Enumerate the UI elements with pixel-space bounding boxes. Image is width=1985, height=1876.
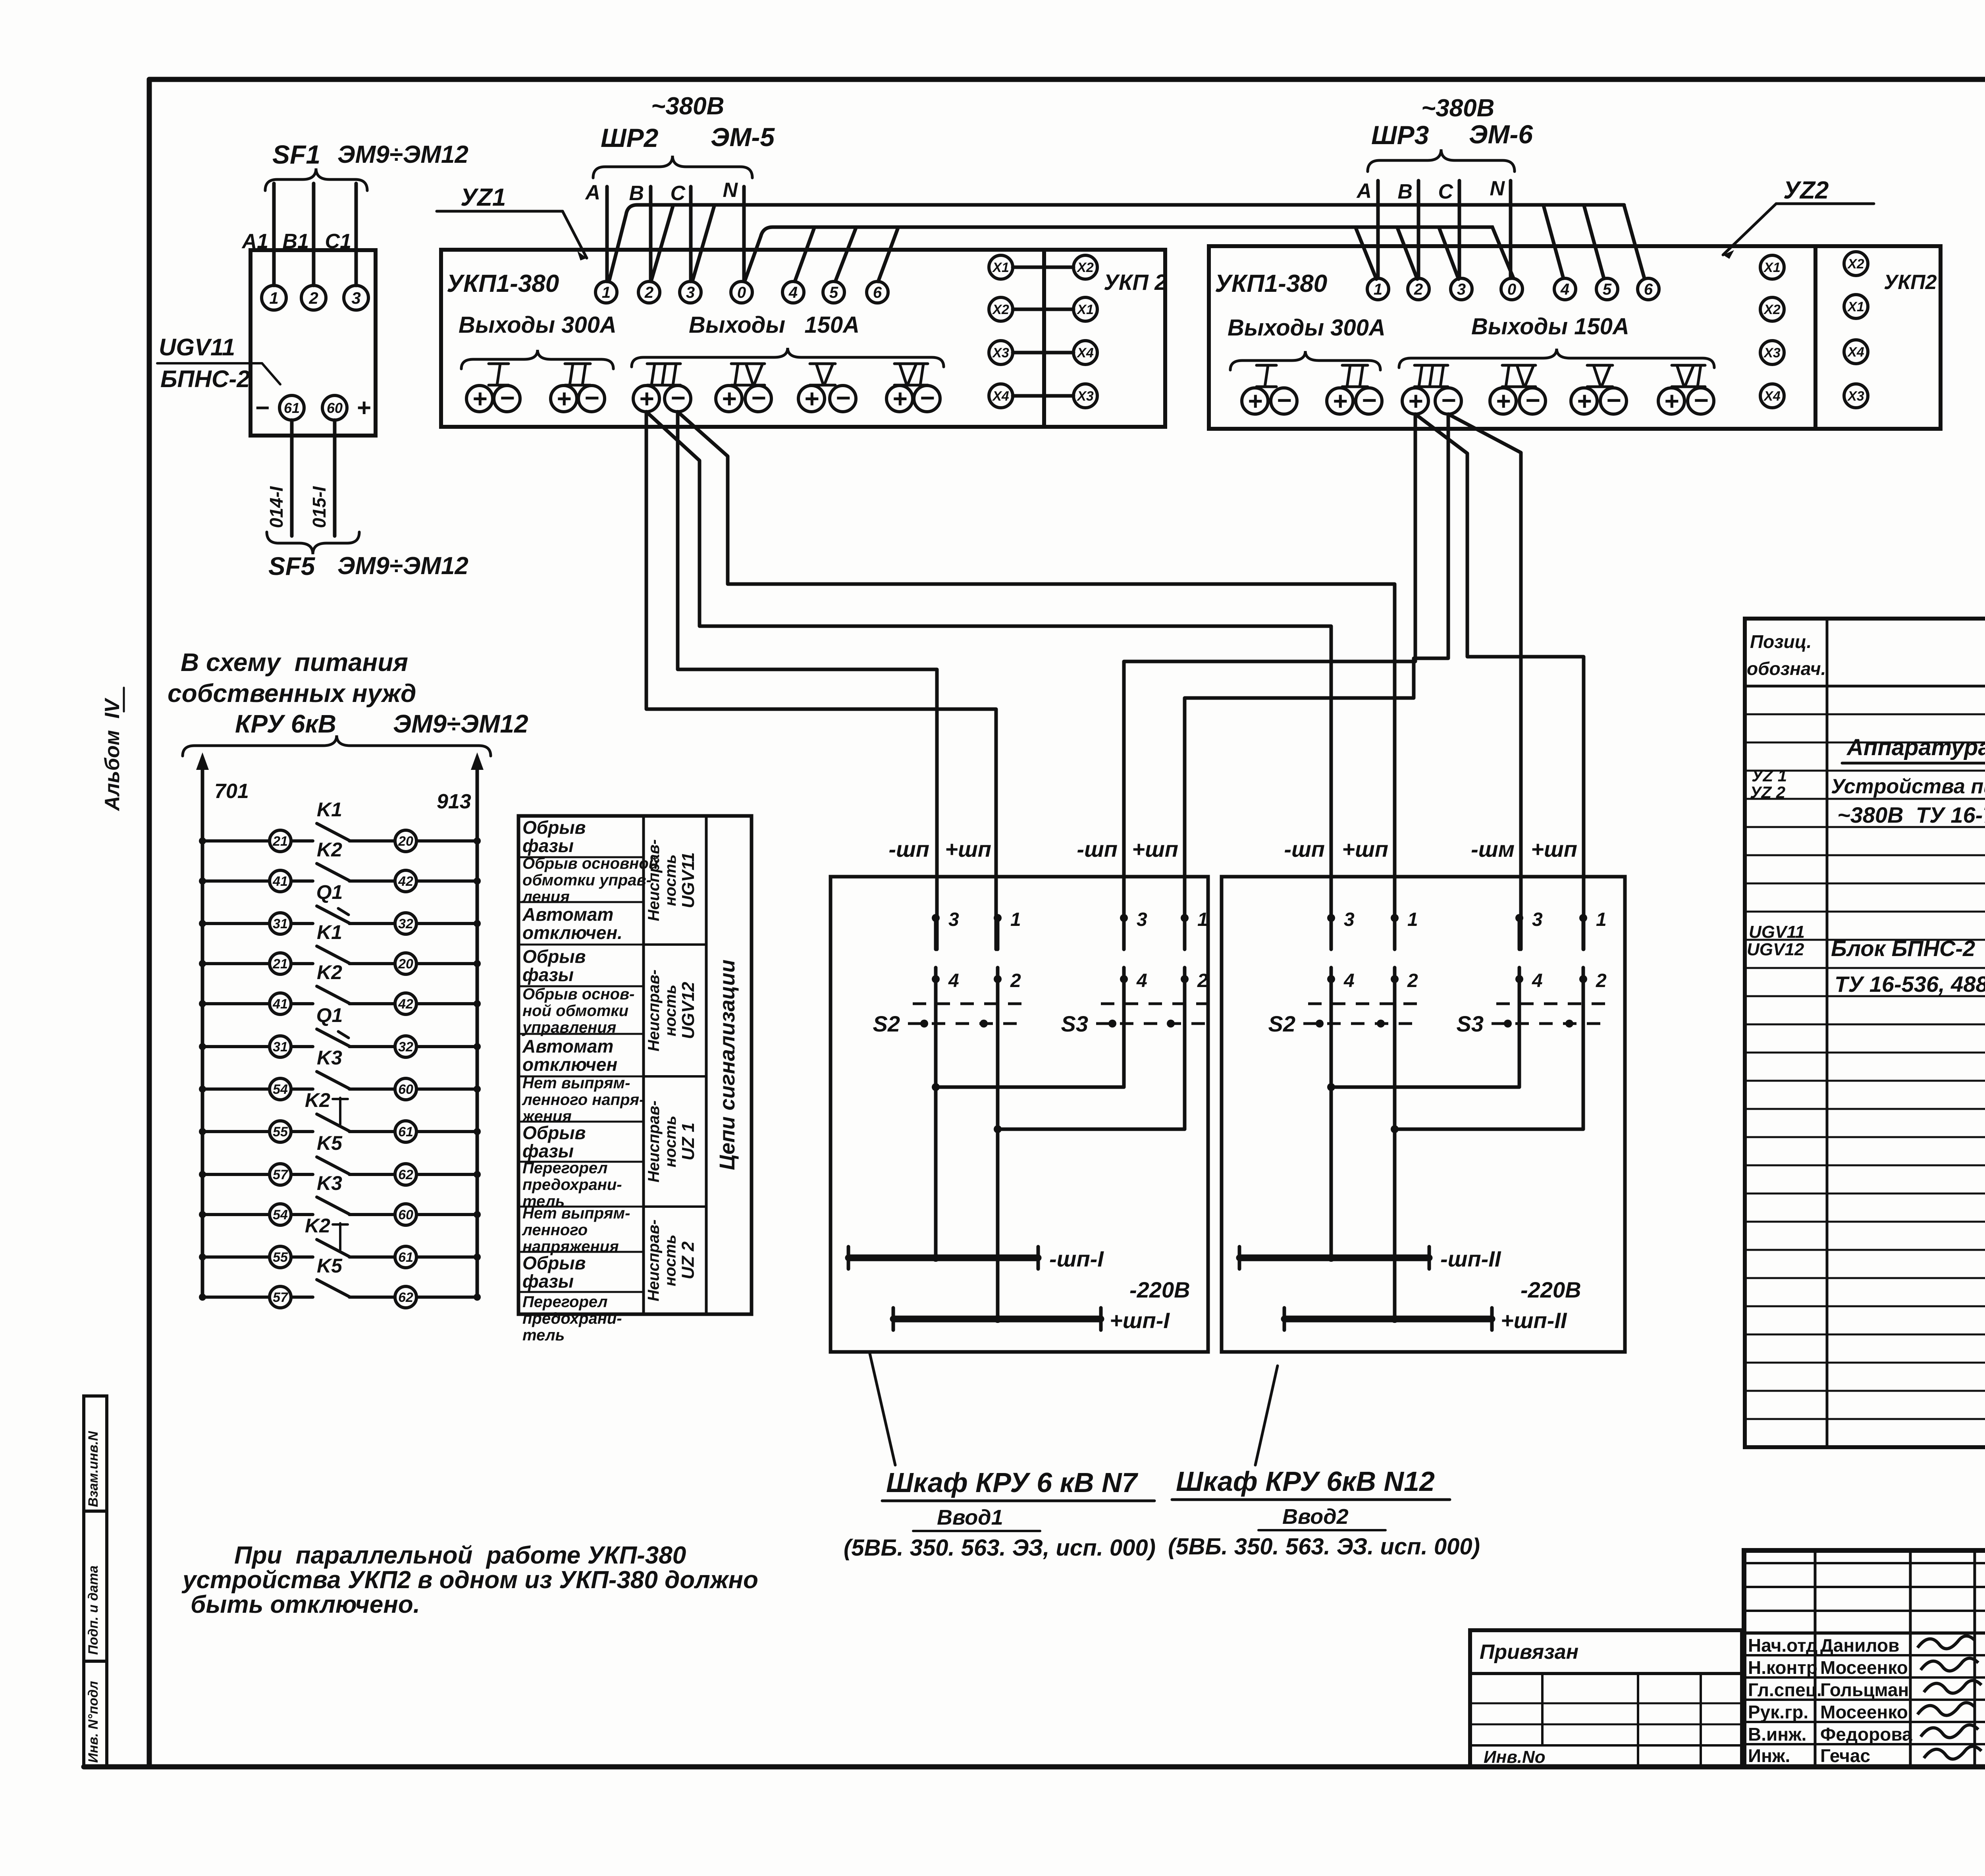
svg-text:-шм: -шм (1471, 837, 1515, 862)
svg-text:Выходы 150А: Выходы 150А (1471, 314, 1629, 339)
output 3 minus terminal (unit2) (1435, 386, 1461, 415)
album label (101, 688, 124, 812)
svg-text:ления: ления (522, 888, 570, 906)
output 4 plus terminal (unit2) (1490, 387, 1516, 415)
wire unit1 out III- to cabinet1 -bus (678, 412, 937, 949)
signal text row 6 (522, 1036, 617, 1075)
svg-text:57: 57 (273, 1167, 289, 1182)
ladder left rail 701 (196, 752, 249, 1298)
output 2 minus terminal (unit1) (578, 384, 605, 412)
svg-text:отключен: отключен (522, 1054, 617, 1075)
svg-text:2: 2 (308, 289, 318, 307)
svg-text:-шп-I: -шп-I (1049, 1246, 1104, 1271)
svg-text:60: 60 (398, 1082, 413, 1097)
outputs 300A label (unit2) (1228, 315, 1386, 341)
terminal 3 of UKP1 unit2 (1451, 278, 1472, 300)
UKP2 box (unit2) (1815, 246, 1941, 429)
svg-text:61: 61 (398, 1124, 413, 1139)
net label -шп (1284, 837, 1325, 862)
svg-text:2: 2 (1596, 970, 1607, 991)
contact K2 row 8 (55-61) (199, 1089, 481, 1142)
phase B wire (unit2) (1417, 181, 1420, 278)
bus tap to pin 4 (unit2) (1544, 206, 1563, 278)
contact K3 row 10 (54-60) (199, 1172, 481, 1225)
contact stud 1 II (1391, 909, 1418, 949)
output 4 plus terminal (unit1) (716, 384, 742, 413)
svg-text:УZ2: УZ2 (1783, 177, 1829, 204)
svg-text:Блок БПНС-2 ~415В 50Гц: Блок БПНС-2 ~415В 50Гц - 220В (1831, 936, 1985, 961)
net label -шм (1471, 837, 1515, 862)
wire unit2 out III- to cabinet1 (1185, 414, 1448, 949)
neutral N wire (unit2) (1509, 181, 1513, 278)
contact stud 3 II (1327, 909, 1355, 949)
svg-text:−: − (1441, 386, 1455, 415)
svg-text:обознач.: обознач. (1747, 658, 1826, 679)
svg-text:Перегорел: Перегорел (522, 1159, 608, 1177)
bracket SF1 (265, 168, 367, 191)
wire C1 (355, 183, 358, 285)
signal text row 9 (522, 1159, 622, 1210)
svg-text:(5ВБ. 350. 563. ЭЗ. исп. 000): (5ВБ. 350. 563. ЭЗ. исп. 000) (1168, 1534, 1480, 1560)
connector X column (unit2) (1760, 255, 1784, 408)
svg-text:K3: K3 (317, 1047, 342, 1069)
terminal 0 of UKP1 unit2 (1501, 278, 1522, 300)
phase A wire (unit1) (605, 187, 609, 281)
svg-text:УZ 2: УZ 2 (1750, 783, 1785, 802)
output 5 minus terminal (unit2) (1600, 386, 1627, 415)
svg-text:-шп: -шп (1077, 837, 1118, 862)
svg-text:4: 4 (788, 284, 798, 301)
svg-text:Ввод2: Ввод2 (1282, 1505, 1349, 1529)
contact stud 1 II (1579, 909, 1607, 949)
phase C wire (unit2) (1458, 181, 1461, 278)
svg-text:Х4: Х4 (1763, 389, 1781, 404)
link terminal4 wires II (1327, 979, 1519, 1091)
svg-text:1: 1 (1197, 909, 1208, 930)
bus tap to pin 1 (unit2) (1356, 228, 1376, 279)
svg-text:Нач.отд: Нач.отд (1748, 1635, 1817, 1656)
svg-text:62: 62 (398, 1290, 413, 1305)
svg-text:Перегорел: Перегорел (522, 1293, 608, 1311)
svg-text:Позиц.: Позиц. (1750, 631, 1812, 652)
contact K5 row 12 (57-62) (199, 1255, 481, 1308)
svg-text:-шп-II: -шп-II (1440, 1246, 1501, 1271)
node B1 label (283, 230, 309, 253)
output 6 plus terminal (unit2) (1658, 387, 1684, 415)
svg-text:Х4: Х4 (1076, 345, 1094, 361)
svg-text:управления: управления (522, 1019, 616, 1036)
svg-text:−: − (751, 384, 765, 412)
switch S2 I (873, 1004, 1022, 1036)
svg-text:УКП1-380: УКП1-380 (1215, 270, 1327, 297)
svg-text:S2: S2 (1268, 1011, 1296, 1036)
outputs 150A label (unit2) (1471, 314, 1629, 339)
contact stud 2 II (1579, 968, 1607, 991)
phase B wire (unit1) (649, 187, 653, 281)
svg-text:~380В: ~380В (1421, 94, 1494, 122)
svg-text:Х3: Х3 (1763, 345, 1781, 361)
svg-text:Подп. и дата: Подп. и дата (86, 1566, 101, 1655)
signal text row 3 (522, 904, 622, 943)
contact stud 4 II (1327, 968, 1355, 991)
fault group label UZ 1 (645, 1101, 698, 1182)
svg-text:Неисправ-: Неисправ- (645, 970, 663, 1051)
svg-text:0: 0 (737, 284, 746, 301)
svg-text:Х2: Х2 (992, 302, 1009, 317)
phase C wire (unit1) (689, 187, 693, 281)
node C1 label (325, 230, 351, 253)
terminal 5 of UKP1 unit1 (823, 281, 844, 303)
svg-text:ность: ность (662, 1116, 679, 1167)
svg-text:54: 54 (273, 1082, 288, 1097)
svg-text:+: + (556, 384, 571, 413)
svg-text:ность: ность (662, 1234, 679, 1286)
svg-text:фазы: фазы (522, 964, 574, 985)
svg-text:УКП1-380: УКП1-380 (447, 270, 559, 297)
neutral bus wire (between units) (745, 227, 1513, 280)
svg-text:20: 20 (398, 956, 413, 972)
output 4 minus terminal (unit2) (1519, 386, 1546, 415)
device UZ2 box (UKP1-380 no.2) (1209, 246, 1815, 429)
svg-text:N: N (1490, 177, 1505, 200)
svg-text:2: 2 (1407, 970, 1418, 991)
wire to minus bus II (1327, 1087, 1335, 1262)
svg-text:SF5: SF5 (268, 552, 316, 580)
signal circuits column label (715, 960, 739, 1170)
svg-text:Мосеенко: Мосеенко (1820, 1657, 1908, 1678)
signal text row 2 (522, 855, 658, 906)
svg-text:60: 60 (327, 400, 343, 416)
pin 61 of UGV11 (279, 395, 304, 420)
contact stud 3 II (1515, 909, 1543, 949)
node C label (unit2) (1438, 180, 1453, 203)
svg-text:41: 41 (272, 997, 288, 1012)
svg-text:Обрыв: Обрыв (522, 1253, 586, 1273)
svg-text:6: 6 (873, 284, 882, 301)
svg-text:1: 1 (1596, 909, 1607, 930)
signal text row 7 (522, 1074, 644, 1125)
svg-text:Устройства питания УКП-380У2 (: Устройства питания УКП-380У2 (УКП1, УКП2… (1831, 775, 1985, 798)
svg-text:K2: K2 (317, 961, 342, 983)
svg-text:УКП 2: УКП 2 (1104, 270, 1167, 295)
svg-text:31: 31 (273, 916, 288, 931)
output 2 plus terminal (unit2) (1327, 387, 1353, 415)
svg-text:Аппаратура по месту: Аппаратура по месту (1846, 735, 1985, 760)
svg-text:3: 3 (948, 909, 959, 930)
bus tap to pin 6 (unit1) (878, 228, 898, 281)
parts row UGV11 UGV12 designators (1747, 922, 1805, 959)
svg-text:3: 3 (351, 289, 360, 307)
mechanical link K3-K2 upper (333, 1098, 348, 1124)
svg-text:−: − (835, 384, 850, 412)
signal text row 4 (522, 946, 586, 985)
svg-text:ШР3: ШР3 (1371, 120, 1429, 150)
bracket SF5 (267, 532, 359, 554)
svg-text:тель: тель (522, 1327, 565, 1344)
output group I numeral (unit1) (489, 364, 509, 385)
svg-text:4: 4 (1136, 970, 1147, 991)
svg-text:Х2: Х2 (1763, 302, 1781, 317)
svg-text:Цепи сигнализации: Цепи сигнализации (715, 960, 739, 1170)
wire to plus bus I (994, 1129, 1002, 1323)
wire A1 (272, 183, 276, 285)
svg-text:31: 31 (273, 1039, 288, 1055)
svg-text:21: 21 (272, 834, 288, 849)
svg-text:-шп: -шп (888, 837, 929, 862)
parts row: UKP TU number (1837, 802, 1985, 827)
svg-text:014-I: 014-I (266, 486, 287, 528)
output 1 minus terminal (unit2) (1271, 386, 1297, 415)
svg-text:UGV12: UGV12 (1747, 940, 1804, 959)
svg-text:C: C (670, 182, 686, 205)
svg-text:+шп: +шп (1531, 837, 1577, 862)
svg-text:Обрыв: Обрыв (522, 946, 586, 967)
svg-text:собственных нужд: собственных нужд (168, 679, 416, 708)
svg-text:UGV11: UGV11 (1749, 922, 1805, 942)
svg-text:−: − (1606, 386, 1621, 415)
svg-text:Х1: Х1 (1763, 260, 1781, 275)
svg-text:−: − (1525, 386, 1540, 415)
bracket outputs 300A (unit2) (1230, 351, 1380, 370)
wire unit1 out III+ to cabinet2 (646, 412, 1331, 949)
svg-text:+: + (1576, 387, 1591, 415)
svg-text:32: 32 (398, 1039, 413, 1055)
svg-text:Гл.спец.: Гл.спец. (1748, 1679, 1822, 1700)
output group II numeral (unit1) (565, 364, 590, 385)
svg-text:41: 41 (272, 874, 288, 889)
svg-text:1: 1 (1374, 281, 1382, 298)
svg-text:быть отключено.: быть отключено. (191, 1591, 420, 1618)
output group III numeral (unit2) (1415, 365, 1448, 387)
mechanical link K3-K2 lower (333, 1223, 348, 1250)
device UZ1 box (UKP1-380 no.1) (441, 250, 1044, 427)
parts row: section heading (1842, 735, 1985, 763)
svg-text:+: + (1332, 387, 1347, 415)
title block staff names (1748, 1635, 1912, 1766)
fault group label UZ 2 (645, 1219, 698, 1301)
contact K2 row 11 (55-61) (199, 1215, 481, 1268)
svg-text:фазы: фазы (522, 1271, 574, 1292)
output 1 plus terminal (unit2) (1242, 387, 1268, 415)
svg-text:+шп: +шп (1342, 837, 1388, 862)
svg-text:Нет выпрям-: Нет выпрям- (522, 1205, 630, 1222)
svg-text:Привязан: Привязан (1480, 1641, 1578, 1664)
UKP2 label (unit2) (1884, 271, 1937, 294)
node A label (unit2) (1356, 179, 1372, 202)
svg-text:1: 1 (1407, 909, 1418, 930)
net label +шп (945, 837, 991, 862)
svg-text:32: 32 (398, 916, 413, 931)
svg-text:K5: K5 (317, 1255, 343, 1277)
svg-text:Q1: Q1 (316, 881, 343, 903)
svg-text:+: + (1408, 387, 1422, 415)
terminal 2 of UKP1 unit2 (1408, 278, 1429, 300)
net label +шп (1531, 837, 1577, 862)
power block UGV11 box (251, 250, 376, 436)
contact stud 4 II (1515, 968, 1543, 991)
svg-text:Х3: Х3 (1847, 389, 1864, 404)
bus tap to pin 6 (unit2) (1624, 206, 1644, 278)
net label +шп (1132, 837, 1178, 862)
svg-text:~380В: ~380В (651, 93, 724, 120)
svg-text:ность: ность (662, 854, 679, 906)
pin 3 of UGV11 (344, 285, 368, 310)
output group II numeral (unit2) (1342, 365, 1368, 387)
fault group label UGV11 (645, 839, 698, 921)
signal text row 5 (522, 985, 635, 1036)
output 3 minus terminal (unit1) (665, 384, 691, 412)
plus polarity mark UGV11 (357, 394, 371, 422)
signal table grid (518, 816, 752, 1314)
svg-text:1: 1 (1010, 909, 1021, 930)
node N label (unit2) (1490, 177, 1505, 200)
output group IV numeral (unit2) (1502, 365, 1536, 387)
svg-text:Х1: Х1 (1076, 302, 1094, 317)
svg-text:В.инж.: В.инж. (1748, 1724, 1806, 1745)
node A label (unit1) (584, 181, 600, 204)
svg-text:Инж.: Инж. (1748, 1745, 1790, 1766)
svg-text:Обрыв: Обрыв (522, 1122, 586, 1143)
svg-text:K1: K1 (317, 798, 342, 821)
label -220V I (1129, 1277, 1190, 1302)
svg-text:Альбом IV: Альбом IV (101, 697, 124, 812)
svg-text:−: − (584, 384, 599, 412)
link terminal4 wires I (932, 979, 1124, 1091)
title block grid (1744, 1550, 1985, 1767)
svg-text:Обрыв основной: Обрыв основной (522, 855, 658, 872)
svg-text:−: − (1276, 386, 1291, 415)
svg-text:4: 4 (1343, 970, 1355, 991)
svg-text:5: 5 (829, 284, 838, 301)
link terminal2 wires I (994, 979, 1185, 1133)
feeder ShR2 EM-5 label (601, 122, 775, 152)
contact stud 2 II (1391, 968, 1418, 991)
svg-text:54: 54 (273, 1207, 288, 1222)
svg-text:-шп: -шп (1284, 837, 1325, 862)
svg-text:ЭМ-6: ЭМ-6 (1469, 120, 1533, 149)
svg-text:60: 60 (398, 1207, 413, 1222)
svg-text:+: + (639, 384, 653, 413)
output group III numeral (unit1) (647, 364, 680, 385)
UKP1-380 unit2 title (1215, 270, 1327, 297)
bus tap to pin 2 (unit2) (1397, 228, 1417, 279)
terminal 6 of UKP1 unit2 (1638, 278, 1659, 300)
svg-text:21: 21 (272, 956, 288, 972)
svg-text:−: − (1361, 386, 1376, 415)
svg-text:4: 4 (1532, 970, 1543, 991)
node N label (unit1) (723, 179, 738, 202)
output 5 plus terminal (unit1) (798, 384, 825, 413)
svg-text:УZ 1: УZ 1 (1752, 766, 1787, 785)
svg-text:B: B (629, 182, 644, 205)
terminal 1 of UKP1 unit2 (1367, 278, 1389, 300)
svg-text:61: 61 (398, 1250, 413, 1265)
svg-text:Выходы 150А: Выходы 150А (689, 312, 860, 338)
wire 014-I (266, 420, 292, 536)
wire unit2 out III+ to cabinet1 (1124, 414, 1415, 949)
cabinet box II (1222, 877, 1625, 1352)
terminal 6 of UKP1 unit1 (867, 281, 888, 303)
wire B1 (312, 183, 316, 285)
svg-text:Шкаф КРУ 6 кВ N7: Шкаф КРУ 6 кВ N7 (886, 1467, 1138, 1498)
svg-text:3: 3 (1457, 281, 1466, 298)
svg-text:57: 57 (273, 1290, 289, 1305)
output 6 minus terminal (unit1) (914, 384, 940, 412)
phase bus wire A (between units) (609, 205, 1624, 280)
wire unit1 out III- to cabinet2 (678, 412, 1395, 949)
svg-text:1: 1 (269, 289, 278, 307)
svg-text:ленного: ленного (522, 1221, 588, 1239)
svg-text:6: 6 (1644, 281, 1653, 298)
svg-text:-220В: -220В (1129, 1277, 1190, 1302)
terminal 4 of UKP1 unit1 (782, 281, 804, 303)
svg-text:Неисправ-: Неисправ- (645, 839, 663, 921)
svg-text:ЭМ9÷ЭМ12: ЭМ9÷ЭМ12 (337, 552, 468, 580)
connector Х3-Х4 link (unit1) (989, 341, 1097, 364)
signal text row 12 (522, 1293, 622, 1344)
svg-text:Х2: Х2 (1076, 260, 1094, 275)
terminal 3 of UKP1 unit1 (680, 281, 701, 303)
link terminal2 wires II (1391, 979, 1583, 1133)
output 3 plus terminal (unit1) (633, 384, 659, 413)
svg-text:Выходы 300А: Выходы 300А (459, 312, 617, 338)
output 5 minus terminal (unit1) (830, 384, 856, 412)
parts table header (1747, 631, 1985, 684)
svg-text:Данилов: Данилов (1820, 1635, 1899, 1656)
svg-text:−: − (919, 384, 934, 412)
switch S2 II (1268, 1004, 1419, 1036)
svg-text:Обрыв основ-: Обрыв основ- (522, 985, 635, 1003)
contact stud 3 I (1120, 909, 1147, 949)
svg-text:−: − (499, 384, 514, 412)
contact K2 row 2 (41-42) (199, 839, 481, 892)
contact K2 row 5 (41-42) (199, 961, 481, 1014)
wire to minus bus I (932, 1087, 940, 1262)
svg-text:4: 4 (948, 970, 959, 991)
fault group label UGV12 (645, 970, 698, 1051)
pin 2 of UGV11 (301, 285, 326, 310)
UGV11 reference label (157, 334, 280, 392)
bus -шп-II (1239, 1246, 1501, 1271)
svg-text:701: 701 (214, 780, 249, 803)
output 6 plus terminal (unit1) (887, 384, 913, 413)
contact stud 3 I (932, 909, 959, 949)
svg-text:Инв.No: Инв.No (1484, 1747, 1546, 1767)
output 6 minus terminal (unit2) (1688, 386, 1714, 415)
svg-text:Выходы 300А: Выходы 300А (1228, 315, 1386, 341)
svg-text:S2: S2 (873, 1011, 900, 1036)
output 1 minus terminal (unit1) (494, 384, 520, 412)
cabinet1 leader line (869, 1352, 895, 1465)
svg-text:UGV11: UGV11 (678, 852, 698, 908)
svg-text:S3: S3 (1061, 1011, 1089, 1036)
svg-text:Федорова: Федорова (1820, 1724, 1912, 1745)
bus -шп-I (848, 1246, 1104, 1271)
svg-text:+: + (892, 384, 907, 413)
svg-text:A: A (1356, 179, 1372, 202)
svg-text:+шп-II: +шп-II (1501, 1308, 1567, 1333)
device UZ1 label (437, 184, 587, 260)
output group V numeral (unit2) (1587, 365, 1613, 387)
svg-text:ЭМ9÷ЭМ12: ЭМ9÷ЭМ12 (337, 141, 468, 168)
output 2 plus terminal (unit1) (551, 384, 577, 413)
svg-text:3: 3 (1532, 909, 1543, 930)
svg-text:C: C (1438, 180, 1453, 203)
wire 015-I (309, 420, 335, 536)
phase bus tap to pin 3 (unit1) (693, 206, 714, 280)
terminal 4 of UKP1 unit2 (1554, 278, 1576, 300)
svg-text:+: + (357, 394, 371, 422)
